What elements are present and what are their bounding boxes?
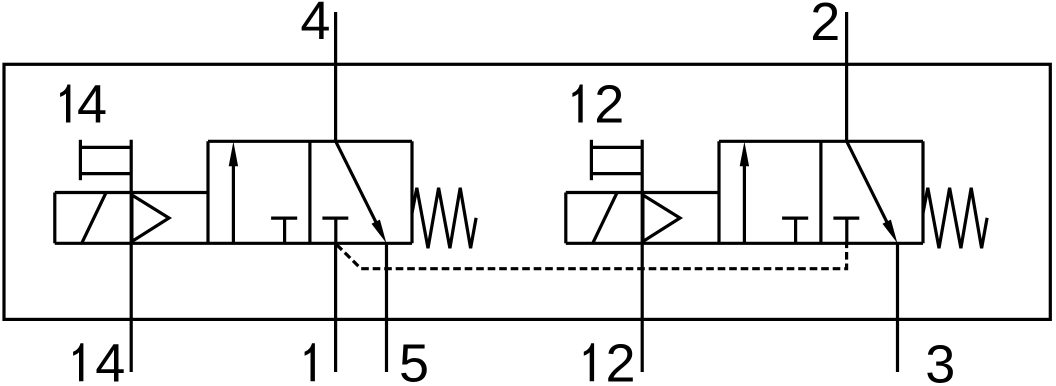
svg-text:2: 2	[606, 333, 636, 386]
svg-text:3: 3	[925, 334, 955, 386]
svg-text:4: 4	[77, 75, 107, 135]
svg-text:5: 5	[399, 333, 429, 386]
svg-text:2: 2	[810, 0, 840, 52]
svg-text:4: 4	[95, 333, 125, 386]
svg-text:2: 2	[594, 75, 624, 135]
svg-text:4: 4	[300, 0, 330, 51]
